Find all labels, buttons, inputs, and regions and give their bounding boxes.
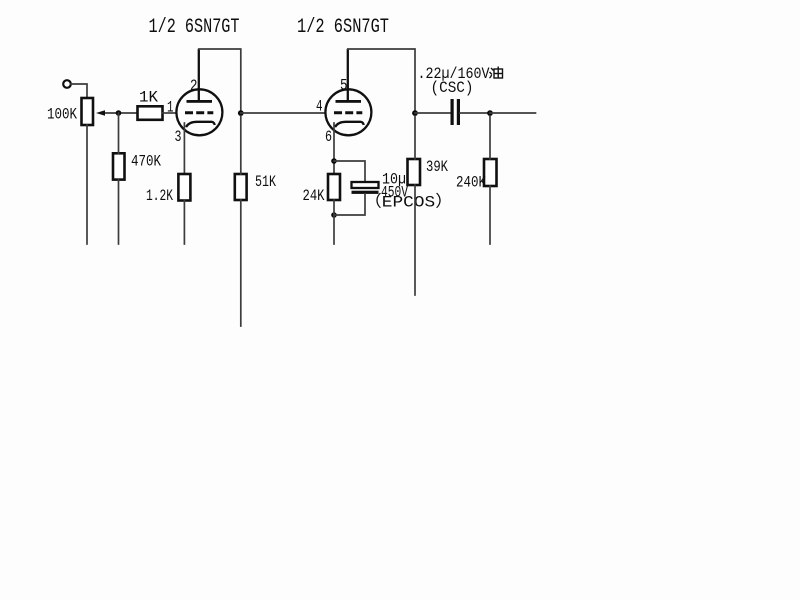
wire 470K leads [118,113,120,244]
svg-text:1.2K: 1.2K [146,187,173,205]
resistor 51K plate load V1 [235,173,276,200]
node V2 cathode top [331,158,337,164]
wire 39K leads crossing rail [414,116,416,295]
input terminal J1 [63,80,71,88]
capacitor C2 10u/450V bypass [334,161,453,215]
wire V2 cathode lead [333,123,335,174]
svg-text:1/2 6SN7GT: 1/2 6SN7GT [149,16,240,39]
svg-text:24K: 24K [303,187,325,205]
wire V1 plate to node over [199,49,241,110]
wire pot bottom to ground rail [86,125,88,244]
node V1 plate coupling [238,110,244,116]
svg-text:51K: 51K [255,173,276,191]
svg-text:2: 2 [190,77,198,95]
resistor 470K [113,153,161,180]
svg-text:1/2 6SN7GT: 1/2 6SN7GT [297,16,389,39]
resistor 39K [408,158,449,185]
svg-text:3: 3 [175,128,182,146]
node 2A3 grid [487,110,493,116]
wire 24K to rail [333,200,335,244]
resistor 1.2K [146,174,190,205]
svg-text:39K: 39K [426,158,448,176]
svg-text:240K: 240K [456,174,486,192]
svg-text:470K: 470K [131,153,161,171]
op tube V2 1/2 6SN7GT [297,16,389,146]
Chinese glyph oil (you) after 160V [490,67,503,79]
wire V1 cathode lead [183,123,185,174]
wire to 2A3 grid [490,112,536,114]
wire 1.2K to rail [183,201,185,245]
svg-text:1K: 1K [139,89,158,107]
svg-text:5: 5 [340,77,348,95]
capacitor C3 .22u/160V coupling [415,65,490,125]
node V2 cathode bottom [331,212,337,218]
potentiometer 100K [47,98,138,125]
wire node to V2 grid [241,112,326,114]
resistor 240K [456,159,497,192]
wire V2 plate to node over [348,49,415,110]
svg-text:1: 1 [167,99,174,117]
wire 51K leads crossing rail [240,116,242,326]
wire 240K leads [489,116,491,244]
svg-text:100K: 100K [47,106,77,124]
svg-text:4: 4 [316,98,323,116]
node A (wiper junction) [116,110,122,116]
resistor 24K [303,174,341,205]
wire 1K to V1 grid [163,112,177,114]
svg-text:6: 6 [325,128,332,146]
op tube V1 1/2 6SN7GT [149,16,240,146]
svg-text:(CSC): (CSC) [431,79,474,97]
node V2 plate [412,110,418,116]
svg-text:（EPCOS）: （EPCOS） [364,193,453,212]
resistor 1K [138,89,163,120]
wire input to pot [71,84,87,98]
